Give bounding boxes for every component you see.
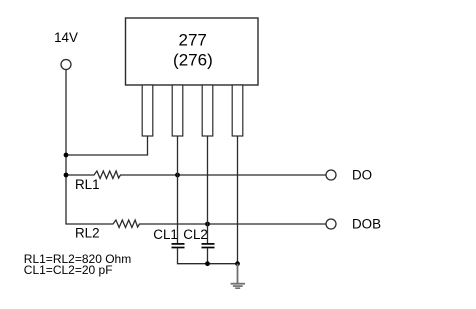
- svg-text:DOB: DOB: [352, 217, 381, 232]
- node: junction 14V/RL1: [64, 173, 69, 178]
- pin 1: [142, 85, 153, 136]
- wire: pin1 to 14V rail: [65, 136, 147, 155]
- svg-text:14V: 14V: [54, 30, 78, 45]
- terminal DOB: [326, 219, 336, 229]
- svg-text:RL2: RL2: [75, 225, 100, 240]
- wire: pin3 down to CL2: [207, 136, 209, 243]
- node: junction RL2/pin3 (DOB net): [205, 222, 210, 227]
- capacitor CL2: [202, 244, 215, 248]
- wire: pin2 down to CL1: [177, 136, 179, 243]
- wire: bottom ground rail: [177, 263, 238, 265]
- svg-text:CL1=CL2=20 pF: CL1=CL2=20 pF: [24, 263, 113, 277]
- svg-text:DO: DO: [352, 168, 372, 183]
- node: junction 14V/pin1: [64, 153, 69, 158]
- resistor RL1: [66, 171, 326, 179]
- resistor RL2: [65, 220, 326, 228]
- wire: 14V rail vertical: [65, 70, 67, 225]
- node: junction CL2/ground rail: [205, 261, 210, 266]
- svg-text:CL1: CL1: [153, 227, 178, 242]
- wire: CL1 bottom lead: [177, 248, 179, 263]
- capacitor CL1: [172, 244, 185, 248]
- svg-text:CL2: CL2: [183, 227, 208, 242]
- node: junction pin4/ground rail: [235, 261, 240, 266]
- svg-text:277: 277: [179, 30, 207, 49]
- wire: lead to ground: [237, 264, 239, 283]
- svg-text:RL1: RL1: [75, 177, 100, 192]
- pin 2: [172, 85, 183, 136]
- node: junction RL1/pin2 (DO net): [175, 173, 180, 178]
- svg-text:(276): (276): [173, 51, 213, 70]
- ground: [231, 283, 245, 289]
- wire: CL2 bottom lead: [207, 248, 209, 263]
- pin 4: [232, 85, 243, 136]
- wire: pin4 down to ground rail: [237, 136, 239, 264]
- terminal 14V: [61, 60, 71, 70]
- pin 3: [202, 85, 213, 136]
- IC U1 body (277/276): [126, 18, 259, 85]
- terminal DO: [326, 170, 336, 180]
